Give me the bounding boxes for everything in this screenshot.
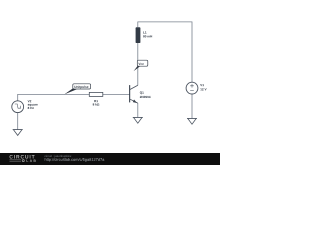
voltage source V2 (square) (12, 101, 24, 113)
wire: V2 bottom to ground (17, 113, 19, 130)
CircuitLab logo (10, 155, 36, 162)
inductor L1 (136, 27, 141, 43)
ground under V1 (187, 118, 197, 124)
R1 value labels (93, 100, 100, 106)
wire: V2 top to R1 left (18, 94, 90, 100)
V2 labels (28, 100, 38, 109)
wire: L1 bottom to Q1 collector (137, 43, 139, 85)
voltage source V1 (12 V DC) (186, 82, 198, 94)
footer credit text (45, 155, 105, 162)
node flag Unitpulse (64, 84, 90, 95)
resistor R1 (89, 92, 103, 96)
wire: Q1 emitter to ground (137, 103, 139, 117)
ground under Q1 emitter (133, 117, 143, 123)
wire: V1 bottom to ground (191, 94, 193, 118)
ground under V2 (13, 130, 23, 136)
footer bar (0, 153, 220, 165)
transistor Q1 (NPN 2N3904) (129, 85, 138, 103)
wire: R1 right to Q1 base (103, 93, 130, 95)
V1 labels (200, 84, 206, 90)
L1 value labels (143, 31, 152, 37)
Q1 labels (140, 91, 151, 98)
node flag Vce (134, 60, 148, 71)
wire: top loop from L1 top to V1 top (138, 22, 192, 82)
